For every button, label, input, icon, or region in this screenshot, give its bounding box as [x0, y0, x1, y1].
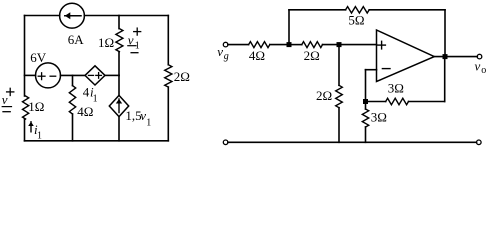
svg-text:1Ω: 1Ω	[98, 35, 114, 50]
svg-text:1Ω: 1Ω	[28, 99, 44, 114]
svg-text:6V: 6V	[30, 50, 47, 65]
svg-text:2Ω: 2Ω	[304, 48, 320, 63]
svg-text:4Ω: 4Ω	[77, 104, 93, 119]
svg-text:3Ω: 3Ω	[371, 109, 387, 124]
svg-text:1: 1	[37, 131, 42, 142]
svg-text:o: o	[481, 65, 486, 76]
svg-text:5Ω: 5Ω	[348, 13, 364, 28]
svg-text:1: 1	[135, 41, 140, 52]
svg-text:4: 4	[83, 85, 90, 100]
svg-text:1: 1	[93, 94, 98, 105]
svg-text:g: g	[224, 51, 229, 62]
svg-text:v: v	[475, 59, 481, 74]
svg-text:1: 1	[146, 117, 151, 128]
svg-text:v: v	[128, 32, 134, 47]
svg-text:4Ω: 4Ω	[249, 48, 265, 63]
svg-text:2Ω: 2Ω	[174, 69, 190, 84]
svg-text:v: v	[2, 92, 8, 107]
svg-text:2Ω: 2Ω	[316, 88, 332, 103]
svg-text:v: v	[217, 44, 223, 59]
svg-text:6A: 6A	[68, 32, 85, 47]
svg-text:3Ω: 3Ω	[388, 80, 404, 95]
